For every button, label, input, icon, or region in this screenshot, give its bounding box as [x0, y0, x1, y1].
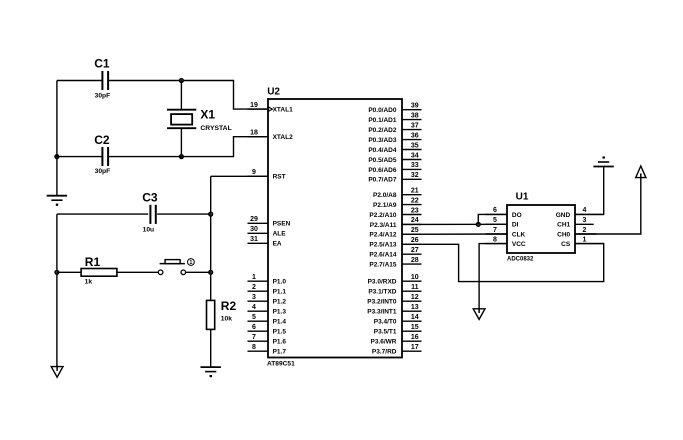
- svg-text:P2.4/A12: P2.4/A12: [369, 232, 396, 239]
- svg-text:P1.4: P1.4: [273, 319, 287, 326]
- svg-text:7: 7: [252, 334, 256, 341]
- wire R2 bottom: [210, 329, 212, 366]
- wire P2.5/A13 pin 26 to U1 CS: [402, 244, 604, 282]
- svg-text:30pF: 30pF: [95, 168, 111, 175]
- svg-text:28: 28: [411, 257, 419, 264]
- svg-text:4: 4: [252, 304, 256, 311]
- svg-text:1: 1: [189, 260, 192, 266]
- svg-text:CRYSTAL: CRYSTAL: [200, 125, 231, 132]
- junction: left rail / R1: [54, 270, 59, 275]
- svg-text:39: 39: [411, 103, 419, 110]
- U2 pin 6 P1.5: [248, 330, 269, 332]
- svg-text:22: 22: [411, 197, 419, 204]
- wire U1 GND to earth: [575, 167, 604, 215]
- U2 pin 7 P1.6: [248, 340, 269, 342]
- svg-text:24: 24: [411, 217, 419, 224]
- svg-text:P2.7/A15: P2.7/A15: [369, 262, 396, 269]
- ground arrow: U1 VCC rail: [473, 309, 485, 320]
- svg-text:P2.6/A14: P2.6/A14: [369, 252, 396, 259]
- svg-text:P1.2: P1.2: [273, 299, 287, 306]
- svg-text:CH0: CH0: [557, 231, 570, 238]
- junction: DI / DO node: [476, 222, 481, 227]
- U1 pin 5 DI: [486, 223, 508, 225]
- U2 pin 10 P3.0/RXD: [402, 280, 422, 282]
- wire switch to reset rail: [186, 271, 211, 273]
- svg-text:38: 38: [411, 112, 419, 119]
- svg-text:P1.3: P1.3: [273, 309, 287, 316]
- svg-text:AT89C51: AT89C51: [267, 361, 295, 368]
- svg-text:1: 1: [252, 274, 256, 281]
- svg-text:PSEN: PSEN: [273, 221, 291, 228]
- U2 pin 17 P3.7/RD: [402, 350, 422, 352]
- svg-text:14: 14: [411, 314, 419, 321]
- U2 pin 26 P2.5/A13: [402, 243, 422, 245]
- capacitor C2: [101, 147, 103, 166]
- U2 pin 28 P2.7/A15: [402, 263, 422, 265]
- svg-text:5: 5: [493, 217, 497, 224]
- svg-text:X1: X1: [200, 108, 215, 122]
- svg-text:P0.2/AD2: P0.2/AD2: [368, 127, 397, 134]
- wire left rail to C1: [57, 80, 102, 82]
- U2 pin 27 P2.6/A14: [402, 253, 422, 255]
- ground: R2: [201, 366, 221, 368]
- U1 pin 6 DO: [486, 213, 508, 215]
- svg-text:P1.0: P1.0: [273, 279, 287, 286]
- U2 pin 29 PSEN: [248, 222, 269, 224]
- junction: C1 / crystal node: [179, 78, 184, 83]
- svg-text:C2: C2: [94, 133, 110, 147]
- wire C2 to XTAL2 pin 18: [109, 137, 268, 157]
- wire left rail (reset): [56, 214, 58, 367]
- U2 pin 14 P3.4/T0: [402, 320, 422, 322]
- svg-text:P2.0/A8: P2.0/A8: [373, 192, 397, 199]
- wire left rail (oscillator): [56, 81, 58, 196]
- svg-text:P1.1: P1.1: [273, 289, 287, 296]
- svg-text:CLK: CLK: [512, 231, 526, 238]
- U2 pin 38 P0.1/AD1: [402, 119, 422, 121]
- svg-text:26: 26: [411, 237, 419, 244]
- wire U1 CH0 to power arrow: [575, 177, 641, 234]
- U2 pin 4 P1.3: [248, 310, 269, 312]
- junction: reset rail / C3: [208, 212, 213, 217]
- IC U1 ADC0832 body: [507, 205, 575, 253]
- svg-text:6: 6: [252, 324, 256, 331]
- U1 pin 3 CH1: [575, 223, 594, 225]
- wire crystal bottom: [180, 128, 182, 156]
- svg-text:11: 11: [411, 284, 419, 291]
- U2 pin 36 P0.3/AD3: [402, 139, 422, 141]
- junction: crystal / C2 node: [179, 154, 184, 159]
- svg-text:17: 17: [411, 344, 419, 351]
- wire R1 left: [57, 271, 81, 273]
- svg-text:3: 3: [583, 217, 587, 224]
- svg-text:18: 18: [250, 130, 258, 137]
- U2 pin 32 P0.7/AD7: [402, 178, 422, 180]
- svg-text:P1.6: P1.6: [273, 339, 287, 346]
- svg-text:25: 25: [411, 227, 419, 234]
- ground arrow: left rail: [51, 367, 63, 378]
- svg-text:6: 6: [493, 207, 497, 214]
- svg-text:XTAL2: XTAL2: [273, 134, 293, 141]
- svg-text:CS: CS: [561, 241, 571, 248]
- U2 pin 3 P1.2: [248, 300, 269, 302]
- svg-text:P2.5/A13: P2.5/A13: [369, 242, 396, 249]
- svg-text:35: 35: [411, 142, 419, 149]
- U2 pin 22 P2.1/A9: [402, 204, 422, 206]
- wire C3 right: [157, 213, 211, 215]
- wire P2.4/A12 pin 25 to U1 CLK: [402, 233, 507, 235]
- IC U2 AT89C51 body: [268, 99, 402, 358]
- svg-text:5: 5: [252, 314, 256, 321]
- U2 pin 35 P0.4/AD4: [402, 149, 422, 151]
- wire DI node to DO: [478, 214, 507, 224]
- svg-text:29: 29: [250, 216, 258, 223]
- U2 pin 13 P3.3/INT1: [402, 310, 422, 312]
- U2 pin 19 XTAL1: [248, 108, 269, 110]
- U2 pin 9 RST: [248, 175, 269, 177]
- U2 pin 33 P0.6/AD6: [402, 168, 422, 170]
- resistor R2: [207, 300, 215, 329]
- U2 pin 23 P2.2/A10: [402, 214, 422, 216]
- svg-text:P0.0/AD0: P0.0/AD0: [368, 107, 397, 114]
- wire U1 VCC to ground arrow: [479, 244, 507, 309]
- svg-text:16: 16: [411, 334, 419, 341]
- junction: reset rail / switch: [208, 270, 213, 275]
- svg-text:21: 21: [411, 188, 419, 195]
- wire crystal top: [180, 81, 182, 110]
- svg-text:4: 4: [583, 207, 587, 214]
- svg-text:P3.3/INT1: P3.3/INT1: [367, 309, 397, 316]
- wire reset rail vertical: [210, 176, 212, 300]
- svg-text:EA: EA: [273, 241, 282, 248]
- crystal X1: [167, 109, 196, 111]
- U2 pin 24 P2.3/A11: [402, 223, 422, 225]
- svg-text:7: 7: [493, 227, 497, 234]
- svg-text:ALE: ALE: [273, 231, 287, 238]
- svg-text:1: 1: [583, 236, 587, 243]
- capacitor C3: [149, 205, 151, 224]
- svg-text:P0.3/AD3: P0.3/AD3: [368, 137, 397, 144]
- svg-text:10k: 10k: [221, 316, 232, 323]
- svg-text:U2: U2: [267, 87, 280, 98]
- svg-text:34: 34: [411, 152, 419, 159]
- svg-text:8: 8: [493, 236, 497, 243]
- svg-text:2: 2: [583, 227, 587, 234]
- svg-text:36: 36: [411, 132, 419, 139]
- svg-text:P3.2/INT0: P3.2/INT0: [367, 299, 397, 306]
- wire R1 to switch: [117, 271, 158, 273]
- U1 pin 2 CH0: [575, 233, 597, 235]
- svg-text:2: 2: [252, 284, 256, 291]
- pushbutton switch: [158, 270, 163, 275]
- svg-text:10: 10: [411, 274, 419, 281]
- svg-text:13: 13: [411, 304, 419, 311]
- U2 pin 25 P2.4/A12: [402, 233, 422, 235]
- U2 pin 1 P1.0: [248, 280, 269, 282]
- junction: left rail / C2: [54, 154, 59, 159]
- wire P2.3/A11 pin 24 to U1 DI: [402, 223, 507, 225]
- U1 pin 8 VCC: [486, 243, 508, 245]
- U2 pin 15 P3.5/T1: [402, 330, 422, 332]
- svg-text:P3.1/TXD: P3.1/TXD: [368, 289, 396, 296]
- U2 pin 2 P1.1: [248, 290, 269, 292]
- U1 pin 7 CLK: [486, 233, 508, 235]
- U2 pin 5 P1.4: [248, 320, 269, 322]
- svg-text:9: 9: [252, 169, 256, 176]
- svg-text:32: 32: [411, 172, 419, 179]
- svg-text:P3.0/RXD: P3.0/RXD: [368, 279, 397, 286]
- svg-text:P2.1/A9: P2.1/A9: [373, 202, 397, 209]
- svg-text:P0.4/AD4: P0.4/AD4: [368, 147, 397, 154]
- capacitor C1: [101, 71, 103, 90]
- svg-text:DI: DI: [512, 222, 519, 229]
- svg-text:C1: C1: [94, 57, 110, 71]
- U2 pin 39 P0.0/AD0: [402, 109, 422, 111]
- svg-text:P3.6/WR: P3.6/WR: [370, 339, 396, 346]
- svg-text:P0.1/AD1: P0.1/AD1: [368, 117, 397, 124]
- U2 pin 31 EA: [248, 242, 269, 244]
- U2 pin 12 P3.2/INT0: [402, 300, 422, 302]
- svg-text:31: 31: [250, 236, 258, 243]
- resistor R1: [81, 269, 117, 277]
- wire RST pin 9 to reset rail: [211, 175, 268, 177]
- U1 pin 1 CS: [575, 243, 604, 245]
- svg-text:C3: C3: [142, 191, 158, 205]
- ground: U1 GND (flipped earth): [593, 166, 613, 168]
- svg-text:R2: R2: [221, 299, 237, 313]
- svg-text:DO: DO: [512, 212, 522, 219]
- svg-text:CH1: CH1: [557, 222, 570, 229]
- svg-text:19: 19: [250, 102, 258, 109]
- U2 pin 16 P3.6/WR: [402, 340, 422, 342]
- U2 pin 11 P3.1/TXD: [402, 290, 422, 292]
- svg-text:15: 15: [411, 324, 419, 331]
- svg-text:GND: GND: [556, 212, 571, 219]
- svg-text:30: 30: [250, 226, 258, 233]
- power arrow: CH0 supply: [636, 166, 646, 178]
- svg-text:P2.2/A10: P2.2/A10: [369, 212, 396, 219]
- wire C1 to XTAL1 pin 19: [109, 81, 268, 110]
- svg-text:VCC: VCC: [512, 241, 526, 248]
- svg-text:12: 12: [411, 294, 419, 301]
- svg-text:ADC0832: ADC0832: [507, 257, 534, 263]
- U2 pin 34 P0.5/AD5: [402, 159, 422, 161]
- svg-text:P3.5/T1: P3.5/T1: [374, 329, 397, 336]
- U2 pin 37 P0.2/AD2: [402, 129, 422, 131]
- svg-text:33: 33: [411, 162, 419, 169]
- svg-text:30pF: 30pF: [95, 92, 111, 99]
- svg-text:R1: R1: [85, 255, 101, 269]
- wire C3 left: [57, 213, 148, 215]
- U2 pin 30 ALE: [248, 232, 269, 234]
- svg-text:3: 3: [252, 294, 256, 301]
- svg-text:10u: 10u: [143, 227, 155, 234]
- U2 pin 21 P2.0/A8: [402, 194, 422, 196]
- U2 pin 18 XTAL2: [248, 136, 269, 138]
- svg-text:XTAL1: XTAL1: [273, 107, 293, 114]
- svg-text:8: 8: [252, 344, 256, 351]
- svg-text:1k: 1k: [85, 278, 93, 285]
- svg-text:37: 37: [411, 122, 419, 129]
- svg-text:P3.4/T0: P3.4/T0: [374, 319, 397, 326]
- svg-text:P1.5: P1.5: [273, 329, 287, 336]
- svg-text:P0.7/AD7: P0.7/AD7: [368, 177, 397, 184]
- svg-text:P3.7/RD: P3.7/RD: [372, 349, 397, 356]
- svg-text:P0.5/AD5: P0.5/AD5: [368, 157, 397, 164]
- svg-text:P2.3/A11: P2.3/A11: [370, 222, 397, 229]
- wire left rail to C2: [57, 156, 102, 158]
- ground: oscillator rail: [47, 195, 67, 197]
- svg-text:23: 23: [411, 207, 419, 214]
- svg-text:P1.7: P1.7: [273, 349, 287, 356]
- svg-text:P0.6/AD6: P0.6/AD6: [368, 167, 397, 174]
- U1 pin 4 GND: [575, 213, 604, 215]
- U2 pin 8 P1.7: [248, 350, 269, 352]
- svg-text:RST: RST: [273, 174, 286, 181]
- svg-text:U1: U1: [516, 192, 529, 203]
- svg-text:27: 27: [411, 247, 419, 254]
